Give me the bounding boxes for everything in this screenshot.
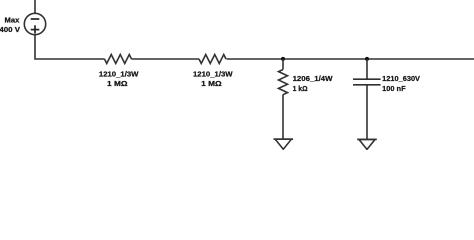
- wire junction down to R3: [282, 59, 284, 70]
- ground symbol under R3: [274, 138, 294, 140]
- svg-text:1210_630V: 1210_630V: [382, 76, 420, 83]
- wire between R1 and R2: [132, 58, 200, 60]
- capacitor C1 bottom plate: [353, 84, 381, 86]
- wire junction down to C1 top plate: [366, 59, 368, 79]
- ground symbol under C1: [357, 138, 377, 140]
- svg-text:1 kΩ: 1 kΩ: [293, 86, 308, 93]
- capacitor C1 top plate: [353, 78, 381, 80]
- wire V1 bottom down to main rail: [35, 35, 105, 59]
- junction node dot at C1 branch: [365, 57, 369, 61]
- svg-text:Max: Max: [5, 17, 20, 24]
- junction node dot at R3 branch: [281, 57, 285, 61]
- svg-text:400 V: 400 V: [0, 27, 20, 34]
- resistor R2 zigzag: [199, 55, 226, 64]
- svg-text:1210_1/3W: 1210_1/3W: [99, 72, 139, 79]
- svg-text:1 MΩ: 1 MΩ: [107, 81, 128, 88]
- resistor R3 vertical zigzag: [279, 70, 288, 95]
- svg-text:1210_1/3W: 1210_1/3W: [193, 72, 233, 79]
- V1 minus sign: [31, 18, 40, 20]
- wire R3 bottom to ground: [282, 95, 284, 140]
- svg-text:100 nF: 100 nF: [382, 86, 406, 93]
- V1 plus sign: [31, 29, 40, 31]
- wire from R2 to right edge: [227, 58, 474, 60]
- wire from top edge to V1 positive terminal: [34, 0, 36, 13]
- wire C1 bottom plate to ground: [366, 85, 368, 140]
- svg-text:1206_1/4W: 1206_1/4W: [293, 76, 333, 83]
- voltage source V1 circle: [24, 13, 45, 34]
- resistor R1 zigzag: [105, 55, 132, 64]
- svg-text:1 MΩ: 1 MΩ: [201, 81, 222, 88]
